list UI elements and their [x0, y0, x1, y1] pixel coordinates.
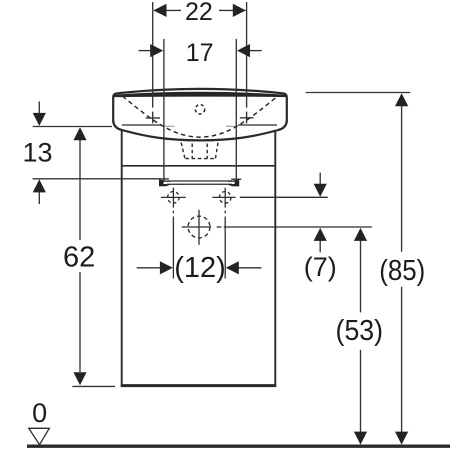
svg-text:(7): (7)	[304, 252, 337, 282]
svg-text:62: 62	[63, 241, 95, 273]
svg-text:13: 13	[22, 138, 52, 168]
svg-text:22: 22	[185, 0, 213, 26]
svg-text:17: 17	[186, 39, 214, 67]
svg-text:(53): (53)	[336, 315, 384, 347]
svg-text:(85): (85)	[379, 255, 425, 287]
svg-text:(12): (12)	[174, 252, 226, 284]
svg-text:0: 0	[32, 398, 47, 428]
